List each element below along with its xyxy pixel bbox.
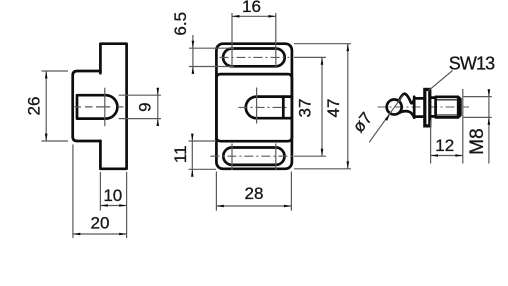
dimension 12 extension lines: [431, 89, 463, 164]
dimension 11 line: [191, 134, 193, 177]
collar face: [413, 97, 416, 118]
plate outline (side): [100, 44, 126, 169]
svg-text:47: 47: [324, 99, 343, 118]
slot vertical centerline: [104, 88, 106, 127]
dimension 16 arrows: [232, 15, 239, 18]
thread end face line: [457, 97, 460, 117]
dimension 9 extension lines: [119, 95, 161, 118]
svg-text:10: 10: [103, 186, 122, 205]
thread root line bottom: [437, 114, 458, 116]
hex flange SW13 (side): [425, 89, 430, 126]
neck top profile: [399, 94, 414, 103]
dimension 37 extension lines: [294, 57, 326, 156]
dimension 6.5 extension lines: [189, 48, 234, 66]
dimension 47 line: [347, 44, 349, 169]
dimension 20 arrows: [73, 233, 80, 236]
thread root line top: [437, 99, 458, 101]
diameter 7 arrow: [385, 114, 390, 121]
diameter 7 leader line: [369, 95, 403, 143]
neck bottom profile: [399, 111, 415, 117]
dimension 12 line: [431, 155, 463, 157]
dimension 37 arrows: [321, 57, 324, 64]
dimension M8 arrows: [488, 89, 491, 96]
svg-text:11: 11: [171, 145, 190, 163]
threaded stud outline with chamfered end: [436, 97, 461, 118]
bottom mounting slot: [223, 148, 284, 165]
dimension 12 arrows: [431, 154, 438, 157]
dimension 26 extension lines: [42, 71, 69, 141]
svg-text:20: 20: [91, 213, 110, 232]
collar bottom edge: [414, 115, 423, 118]
bottom slot vertical centerlines: [232, 144, 276, 171]
dimension 16 line: [232, 15, 276, 17]
svg-text:37: 37: [296, 99, 315, 118]
central hole step line: [282, 97, 285, 119]
dimension 26 arrows: [45, 71, 48, 78]
dimension M8 line: [488, 89, 490, 163]
dimension 20 extension line left: [72, 145, 74, 239]
dimension 10 arrows: [100, 204, 107, 207]
svg-text:M8: M8: [467, 128, 488, 154]
boss band (raised pad) outline: [216, 74, 292, 141]
dimension 26 line: [45, 71, 47, 141]
dimension 47 extension lines: [294, 44, 351, 169]
dimension 10 extension lines: [100, 172, 126, 238]
svg-text:26: 26: [24, 97, 43, 116]
svg-text:9: 9: [135, 102, 154, 111]
dimension 11 extension lines: [189, 141, 217, 169]
top slot horizontal centerline: [220, 56, 290, 58]
svg-text:16: 16: [242, 0, 261, 16]
bottom slot horizontal centerline: [210, 155, 294, 157]
dimension 10 line: [100, 205, 126, 207]
slot (ball socket, side): [77, 95, 117, 118]
svg-text:SW13: SW13: [449, 53, 495, 73]
collar top edge: [414, 97, 423, 100]
top mounting slot: [223, 49, 285, 67]
SW13 leader line: [429, 71, 453, 91]
stud axis centerline: [378, 106, 470, 108]
central socket hole: [246, 97, 292, 119]
body outline rounded rect: [216, 44, 292, 169]
dimension 6.5 arrows: [192, 41, 195, 48]
dimension 9 line: [157, 88, 159, 125]
slot horizontal centerline: [75, 106, 124, 108]
svg-text:12: 12: [435, 136, 454, 155]
svg-text:6.5: 6.5: [171, 12, 190, 36]
dimension 28 extension lines: [216, 172, 291, 211]
dimension 20 line: [73, 233, 127, 235]
washer step top: [432, 96, 436, 99]
central hole vertical centerline: [256, 88, 258, 124]
washer step bottom: [432, 115, 436, 118]
dimension 28 arrows: [216, 205, 223, 208]
dimension 11 arrows: [191, 134, 194, 141]
svg-text:ø7: ø7: [349, 109, 376, 136]
dimension 37 line: [321, 57, 323, 156]
ball: [387, 100, 402, 115]
dimension M8 extension lines: [464, 97, 492, 118]
dimension 28 line: [216, 205, 291, 207]
central hole horizontal centerline: [239, 106, 290, 108]
top slot / dim16 vertical centerlines: [232, 13, 276, 68]
svg-text:28: 28: [245, 184, 264, 203]
dimension 6.5 line: [192, 35, 194, 74]
dimension 9 arrows: [157, 88, 160, 95]
dimension 47 arrows: [347, 44, 350, 51]
boss block outline: [73, 71, 101, 141]
